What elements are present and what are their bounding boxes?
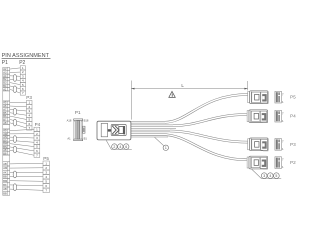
svg-text:4: 4 xyxy=(45,175,47,179)
wire P2 pin 5 xyxy=(10,83,21,85)
wire P4 pin 7 xyxy=(10,150,34,155)
callout circle 4 (P2) xyxy=(267,173,273,179)
wire cable to P5 xyxy=(165,95,248,123)
dimension extension line left xyxy=(130,81,132,120)
callout circle 1 xyxy=(163,145,168,150)
svg-text:3: 3 xyxy=(263,174,265,178)
wire P5 pin 7 xyxy=(10,189,43,190)
leader line to item callouts (main connector) xyxy=(106,140,132,149)
svg-text:7: 7 xyxy=(36,153,38,157)
svg-text:L: L xyxy=(181,83,184,88)
twisted pair symbol P3 pins 3-4 xyxy=(13,108,17,115)
wire P2 pin 7 xyxy=(10,89,21,93)
connector P1 pin table (left column) xyxy=(3,67,10,195)
wire cable to P3 xyxy=(170,131,248,142)
wire P5 pin 4 xyxy=(10,176,43,178)
twisted pair symbol P5 pins 3-4 xyxy=(13,171,17,178)
svg-text:7: 7 xyxy=(45,188,47,192)
connector P5 side view xyxy=(248,91,269,104)
twisted pair symbol P2 pins 6-7 xyxy=(13,86,17,93)
wires P1 to P5 xyxy=(10,163,43,190)
svg-text:2: 2 xyxy=(45,166,47,170)
wire P5 pin 3 xyxy=(10,171,43,173)
callout circle 4 xyxy=(118,144,124,150)
wire P2 pin 2 xyxy=(10,71,21,73)
svg-text:AB: AB xyxy=(3,187,7,191)
callout circle 3 (P2) xyxy=(261,173,267,179)
svg-text:4: 4 xyxy=(119,145,121,149)
wire P5 pin 1 xyxy=(10,162,43,165)
dimension line L xyxy=(131,88,247,90)
dimension extension line right xyxy=(247,81,249,90)
wire P3 pin 1 xyxy=(10,102,27,104)
wire P4 pin 1 xyxy=(10,129,34,130)
twisted pair symbol P4 pins 3-4 xyxy=(13,136,17,143)
svg-text:6: 6 xyxy=(45,184,47,188)
svg-text:B1: B1 xyxy=(84,137,88,141)
wires P1 to P4 xyxy=(10,129,34,155)
connector P3 side view xyxy=(248,138,269,151)
svg-text:P4: P4 xyxy=(35,122,41,127)
leader line to item callouts (P2) xyxy=(252,169,282,179)
svg-text:P1: P1 xyxy=(2,60,8,66)
title PIN ASSIGNMENT xyxy=(2,53,51,59)
wire cable to P4 xyxy=(173,115,247,126)
connector P2 pin table column xyxy=(20,66,25,95)
wire P4 pin 2 xyxy=(10,133,34,135)
svg-text:5: 5 xyxy=(275,174,277,178)
connector P5 face view xyxy=(275,91,282,103)
wire P3 pin 2 xyxy=(10,105,27,108)
wire P3 pin 7 xyxy=(10,123,27,128)
wire P5 pin 6 xyxy=(10,184,43,187)
connector P3 face view xyxy=(275,139,282,151)
svg-text:7: 7 xyxy=(282,111,284,115)
callout circle 6 xyxy=(123,144,129,150)
svg-text:P1: P1 xyxy=(75,110,81,115)
svg-text:BB: BB xyxy=(3,175,7,179)
wire P5 pin 5 xyxy=(10,180,43,183)
svg-text:1: 1 xyxy=(282,119,284,123)
connector P4 face view xyxy=(275,110,282,122)
wires P1 to P3 xyxy=(10,103,27,128)
svg-text:7: 7 xyxy=(282,158,284,162)
wires P1 to P2 xyxy=(10,68,21,93)
leader line to callout 1 xyxy=(155,137,164,145)
svg-text:1: 1 xyxy=(282,100,284,104)
svg-text:3: 3 xyxy=(45,170,47,174)
wire P3 pin 6 xyxy=(10,119,27,123)
svg-text:BB: BB xyxy=(3,191,7,195)
connector P1 side view body xyxy=(97,121,131,140)
svg-text:PIN ASSIGNMENT: PIN ASSIGNMENT xyxy=(2,53,50,59)
svg-text:4: 4 xyxy=(269,174,271,178)
wire P4 pin 4 xyxy=(10,140,34,142)
connector P1 face view xyxy=(74,119,85,141)
svg-text:BM: BM xyxy=(3,179,7,183)
svg-text:7: 7 xyxy=(282,92,284,96)
svg-text:7: 7 xyxy=(22,91,24,95)
revision triangle 1 xyxy=(169,91,176,97)
svg-text:5: 5 xyxy=(45,179,47,183)
svg-text:AM: AM xyxy=(3,166,7,170)
wire cable to P2 xyxy=(162,134,247,159)
callout circle 2 xyxy=(112,144,118,150)
connector P3 pin table column xyxy=(27,100,33,130)
svg-text:A1: A1 xyxy=(3,87,7,91)
wire P2 pin 6 xyxy=(10,86,21,89)
svg-text:B18: B18 xyxy=(84,119,89,123)
svg-text:1: 1 xyxy=(282,147,284,151)
connector P2 face view xyxy=(275,157,282,169)
svg-text:A18: A18 xyxy=(67,119,72,123)
wire P3 pin 4 xyxy=(10,113,27,116)
svg-text:1: 1 xyxy=(45,161,47,165)
wire P5 pin 2 xyxy=(10,167,43,169)
wire P2 pin 3 xyxy=(10,75,21,77)
connector P4 pin table column xyxy=(34,127,40,157)
svg-text:AK: AK xyxy=(3,170,7,174)
svg-text:1: 1 xyxy=(282,165,284,169)
svg-text:P5: P5 xyxy=(290,95,296,100)
svg-text:2: 2 xyxy=(113,145,115,149)
svg-text:P3: P3 xyxy=(290,142,296,147)
connector P5 pin table column xyxy=(43,161,49,193)
svg-text:AB: AB xyxy=(3,162,7,166)
wire P3 pin 3 xyxy=(10,109,27,111)
twisted pair symbol P4 pins 6-7 xyxy=(13,146,17,153)
svg-text:6: 6 xyxy=(125,145,127,149)
svg-text:BK: BK xyxy=(3,183,7,187)
wire P4 pin 3 xyxy=(10,136,34,139)
svg-text:P2: P2 xyxy=(290,160,296,165)
svg-text:A1: A1 xyxy=(67,137,71,141)
wire P2 pin 4 xyxy=(10,79,21,80)
twisted pair symbol P2 pins 3-4 xyxy=(13,75,17,82)
twisted pair symbol P3 pins 6-7 xyxy=(13,119,17,126)
wire P4 pin 6 xyxy=(10,147,34,151)
wire cable bundle from P1 xyxy=(131,121,176,137)
wire P2 pin 1 xyxy=(10,68,21,69)
connector P4 side view xyxy=(247,110,268,123)
svg-text:P3: P3 xyxy=(26,95,32,100)
svg-text:7: 7 xyxy=(282,140,284,144)
wire P3 pin 5 xyxy=(10,116,27,119)
svg-text:1: 1 xyxy=(165,146,167,150)
twisted pair symbol P5 pins 6-7 xyxy=(13,184,17,191)
svg-text:P4: P4 xyxy=(290,114,296,119)
connector P1 latch detail xyxy=(108,125,127,136)
wire P4 pin 5 xyxy=(10,144,34,147)
callout circle 5 (P2) xyxy=(274,173,280,179)
connector P2 side view xyxy=(247,156,268,169)
